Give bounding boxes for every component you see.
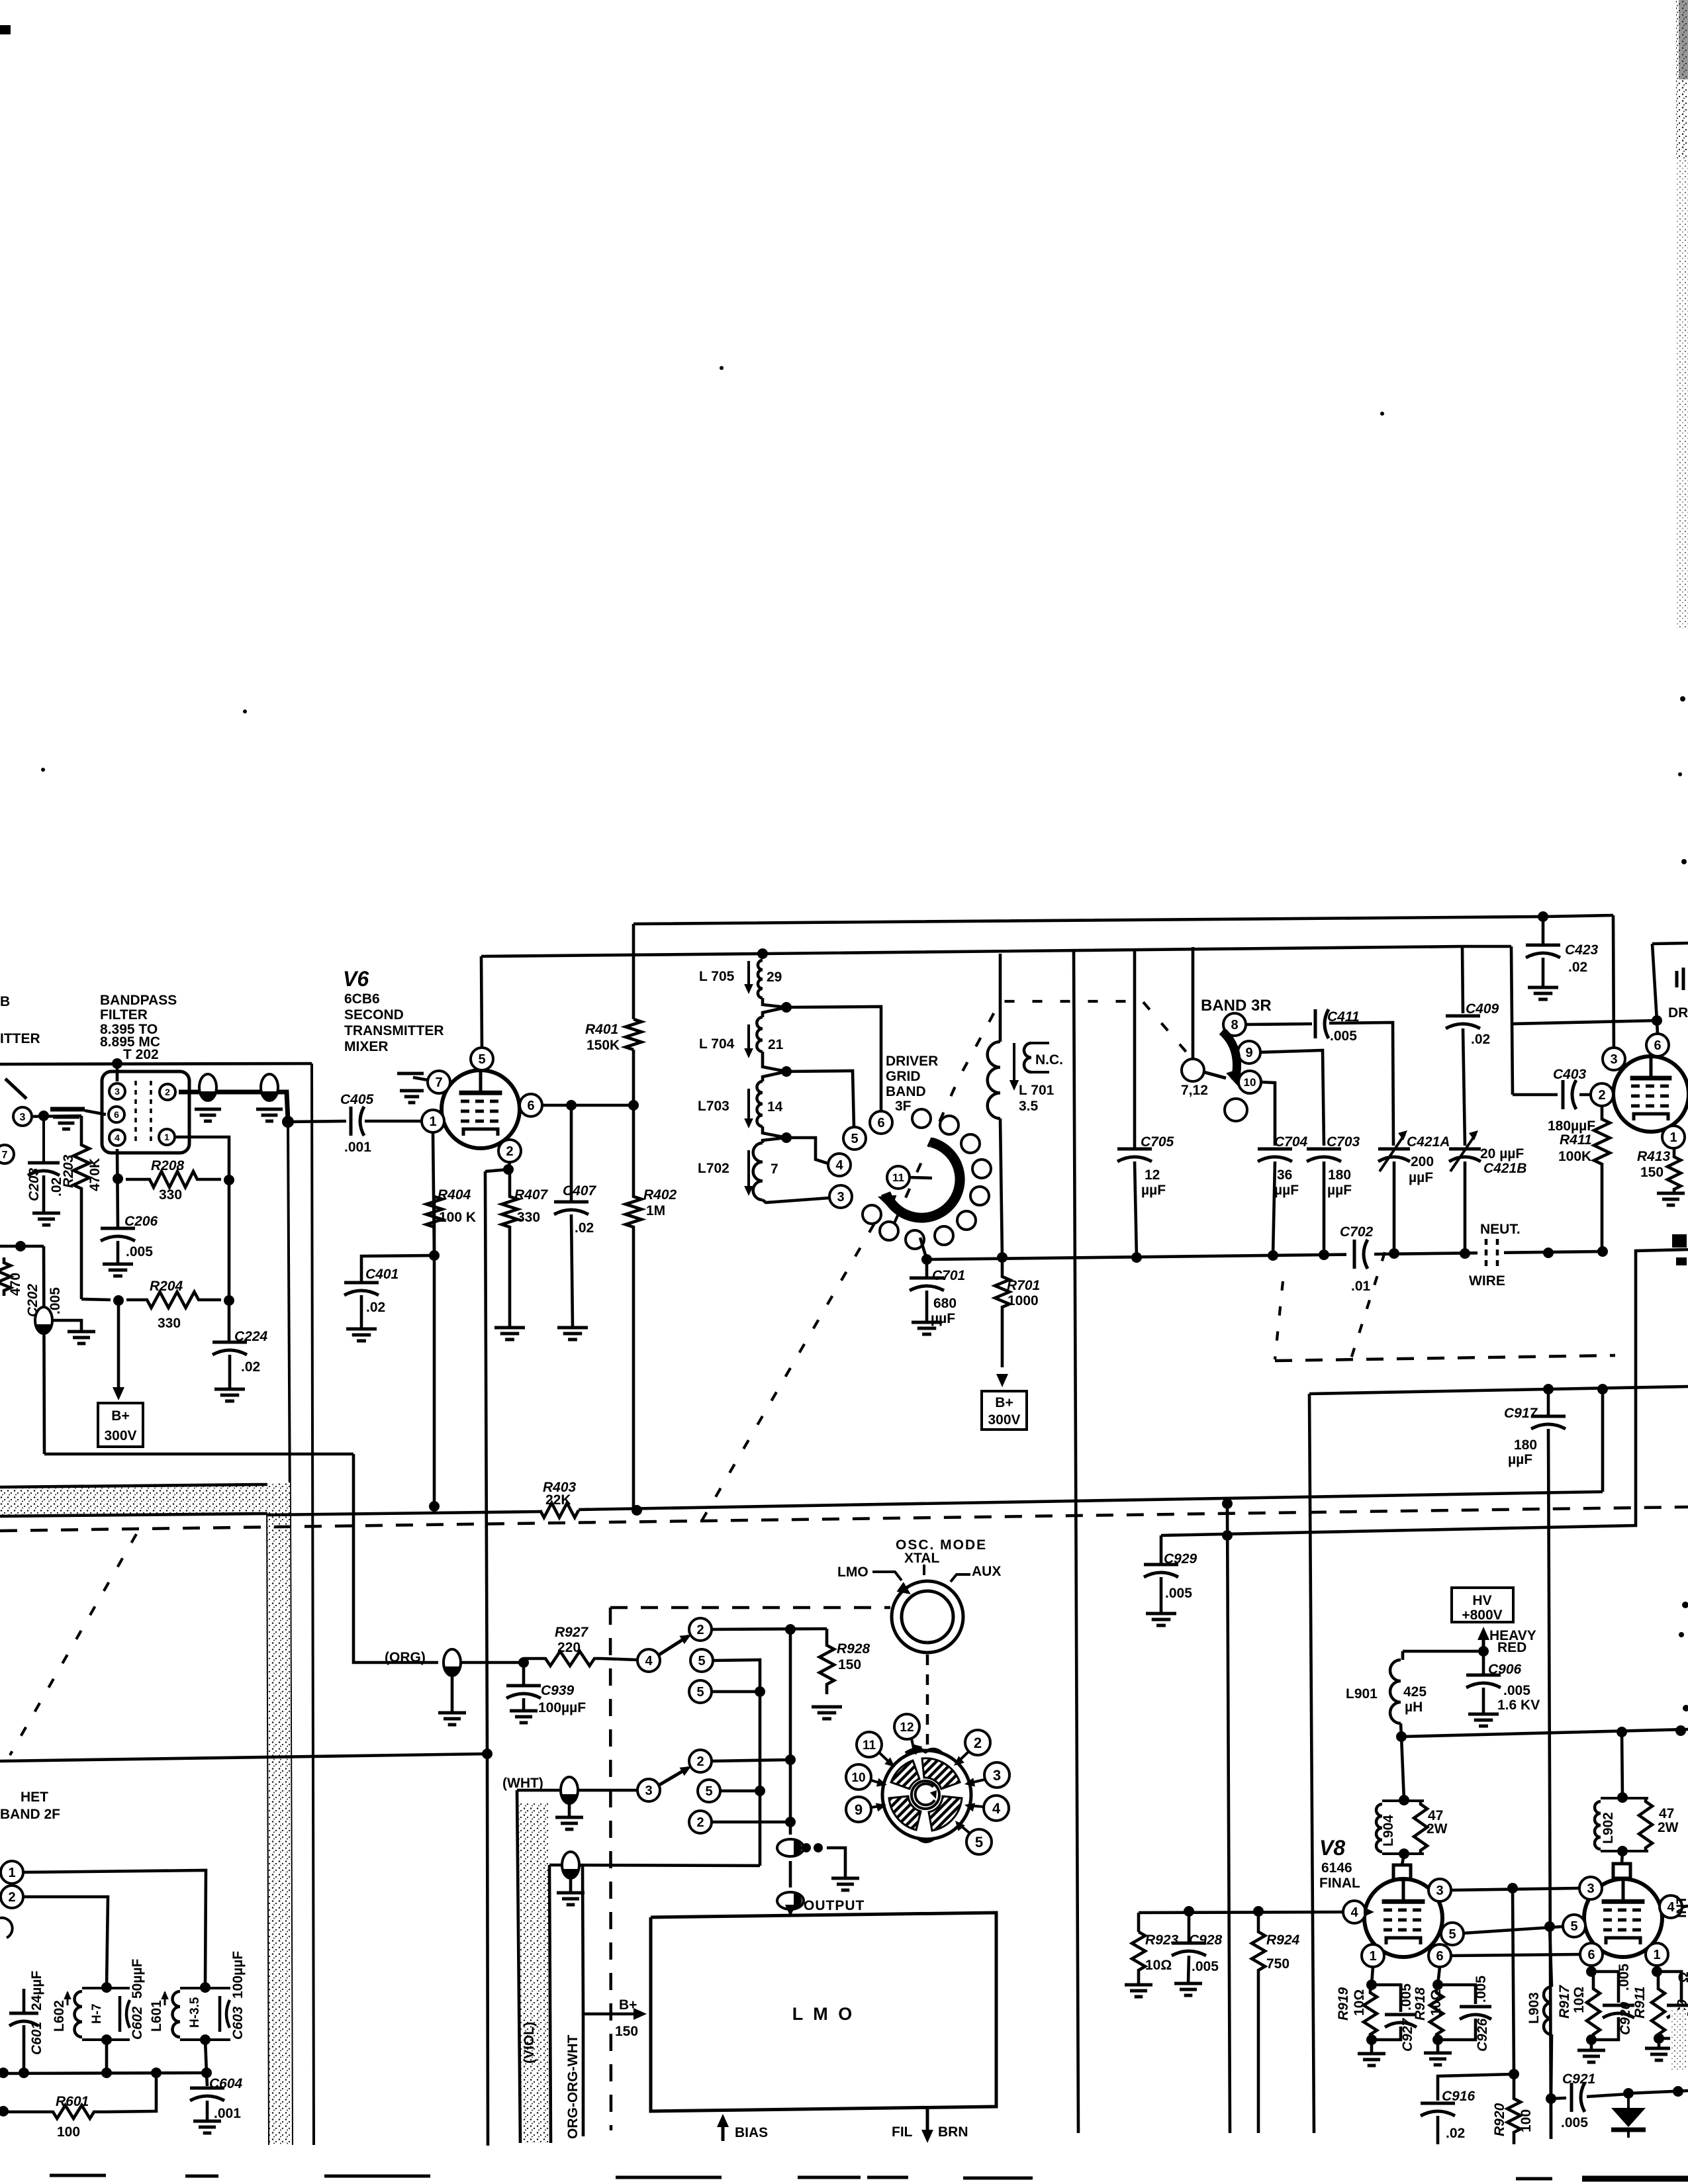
wire tap5 to pin 5 circle: [786, 1071, 854, 1127]
wire horizontal y2197: [44, 1453, 353, 1456]
node bus C917: [1543, 1248, 1554, 1258]
resistor R924 750: [1252, 1911, 1265, 2133]
node pin3 tap: [1507, 1883, 1518, 1893]
node L902 bottom: [1617, 1846, 1628, 1856]
label C926 rotated: [1474, 1976, 1490, 2052]
svg-text:3: 3: [1436, 1884, 1443, 1898]
svg-text:RED: RED: [1497, 1640, 1526, 1655]
node L902 riser: [1617, 1727, 1627, 1737]
node L904 bottom: [1399, 1848, 1409, 1859]
wire ORG line: [353, 1454, 438, 1662]
svg-text:6: 6: [877, 1116, 884, 1130]
wire R918 ground lead: [1436, 2040, 1440, 2053]
capacitor C421B 20uuF variable: [1449, 1130, 1481, 1171]
svg-text:2: 2: [696, 1754, 704, 1769]
pin 1 V7: [1662, 1126, 1685, 1148]
svg-text:10Ω: 10Ω: [1429, 1989, 1444, 2016]
wire bead to ground: [827, 1848, 845, 1878]
label H-7 rotated: [90, 2003, 104, 2024]
node bus L602: [101, 2068, 112, 2078]
svg-text:.02: .02: [575, 1220, 594, 1236]
pin 3 T202: [109, 1083, 125, 1099]
svg-text:B+: B+: [619, 1997, 637, 2013]
label BANDPASS FILTER: [100, 993, 177, 1062]
wire C916 stub: [1438, 2074, 1514, 2101]
wire R403 line left: [434, 1512, 540, 1513]
ground C203: [32, 1213, 60, 1225]
capacitor C917 180uuF: [1531, 1389, 1566, 1429]
power HV+800V box: [1452, 1588, 1513, 1623]
label C701: [931, 1268, 965, 1326]
pin 1 band2F: [1, 1861, 23, 1884]
svg-text:(VIOL): (VIOL): [522, 2022, 537, 2064]
node 2b junction: [785, 1754, 796, 1765]
label C411: [1327, 1009, 1360, 1044]
label OSC MODE: [896, 1537, 987, 1553]
svg-text:L602: L602: [52, 2000, 67, 2032]
switch Band 3R wiper: [1204, 1031, 1240, 1086]
svg-text:4: 4: [835, 1158, 843, 1173]
wire V6 plate riser: [481, 956, 482, 1048]
svg-text:DRI: DRI: [1668, 1005, 1688, 1021]
node bus L601: [201, 2068, 212, 2078]
stray speck 3: [243, 709, 247, 713]
wire ORG cable below: [582, 2014, 585, 2136]
wire R203 bottom to R204 row: [81, 1299, 111, 1300]
wire chassis dashed line: [0, 1507, 1688, 1531]
feedthrough C202: [35, 1307, 52, 1334]
svg-text:C421A: C421A: [1407, 1134, 1450, 1150]
wire C401 ground lead: [360, 1295, 363, 1329]
node C407 tap: [566, 1100, 577, 1111]
wire band border x404: [267, 1484, 269, 2145]
svg-text:300V: 300V: [988, 1412, 1020, 1428]
svg-text:FILTER: FILTER: [100, 1007, 148, 1023]
inductor L901 425uH: [1390, 1651, 1403, 1737]
label L904 rotated: [1381, 1815, 1396, 1846]
wire R401 to node: [632, 1050, 635, 1105]
node R917 bottom: [1586, 2034, 1597, 2045]
node junction on top-left bus: [112, 1058, 122, 1069]
capacitor C921 .005 series: [1571, 2083, 1585, 2112]
node output node: [785, 1624, 796, 1635]
node junction thick wire: [282, 1116, 294, 1128]
svg-text:7: 7: [435, 1075, 442, 1090]
svg-text:L904: L904: [1381, 1815, 1396, 1846]
ground R918: [1424, 2053, 1452, 2065]
svg-text:R208: R208: [151, 1158, 185, 1173]
svg-text:L 701: L 701: [1019, 1083, 1055, 1098]
wire xtal rail x1622: [1074, 950, 1078, 2133]
node C917 top: [1543, 1384, 1554, 1394]
power B+300V box: [98, 1403, 143, 1447]
svg-text:11: 11: [892, 1171, 904, 1184]
resistor 470 partial edge: [0, 1257, 11, 1296]
wire C409 drop: [1462, 946, 1463, 1013]
label R920 rotated: [1492, 2103, 1534, 2136]
label 470 rotated: [8, 1273, 23, 1296]
resistor R203 470K: [73, 1116, 89, 1299]
ground C906: [1468, 1714, 1499, 1726]
label C916: [1442, 2089, 1476, 2141]
ground C604: [193, 2121, 221, 2133]
resistor R401 150K: [626, 1019, 641, 1050]
pin 2a osc switch: [689, 1618, 712, 1641]
svg-text:2: 2: [696, 1815, 704, 1830]
wire tap5 down to L703: [763, 1071, 786, 1081]
wire C921 to diode: [1587, 2094, 1628, 2097]
svg-text:C921: C921: [1562, 2071, 1595, 2087]
wire right edge coil marks: [1677, 968, 1683, 990]
svg-text:LMO: LMO: [837, 1565, 868, 1580]
svg-text:L702: L702: [698, 1161, 729, 1176]
capacitor C423 .02: [1526, 911, 1560, 987]
switch Band 3F wiper arc: [878, 1142, 960, 1218]
svg-text:330: 330: [517, 1210, 540, 1225]
feedthrough output 2: [777, 1892, 804, 1909]
label C421B: [1480, 1146, 1526, 1176]
label R204: [150, 1279, 183, 1331]
ground output bead: [831, 1878, 859, 1890]
svg-text:9: 9: [855, 1801, 863, 1818]
dashed selector box left: [610, 1608, 611, 2130]
pin 4 osc switch: [637, 1649, 660, 1672]
feedthrough WHT: [561, 1777, 578, 1803]
inductor L704 21: [757, 1017, 763, 1052]
label R919 rotated: [1336, 1987, 1367, 2021]
inductor L903: [1544, 1927, 1552, 2099]
pin 9 socket: [846, 1797, 886, 1822]
arrow L703: [744, 1089, 753, 1128]
ground C202: [68, 1332, 95, 1343]
wire T202 pin3 riser: [116, 1064, 119, 1081]
node L705 top: [757, 948, 768, 959]
ground R923: [1125, 1985, 1152, 1997]
wire V6 pin7 ground stub: [397, 1073, 428, 1080]
svg-text:C928: C928: [1189, 1933, 1223, 1948]
cap V9 plate connector: [1613, 1864, 1630, 1878]
capacitor C922 partial loop: [1657, 1972, 1688, 2038]
svg-text:GRID: GRID: [886, 1069, 921, 1084]
node R403 left end: [429, 1501, 440, 1512]
svg-text:µµF: µµF: [1409, 1170, 1433, 1185]
svg-text:8: 8: [1231, 1018, 1238, 1032]
pin 5c osc switch: [698, 1780, 720, 1802]
node out bead b: [814, 1843, 823, 1852]
node bus C705: [1131, 1252, 1142, 1263]
wire y2099 right: [1548, 1387, 1688, 1389]
svg-text:C401: C401: [365, 1267, 399, 1282]
pin 5 V8: [1441, 1923, 1464, 1945]
resistor R204 330: [126, 1292, 221, 1308]
svg-text:WIRE: WIRE: [1469, 1273, 1505, 1289]
wire x1148 lower: [759, 1791, 762, 1866]
label C920 rotated: [1617, 1964, 1633, 2035]
svg-text:3: 3: [837, 1190, 844, 1205]
pin 5b osc switch: [689, 1680, 712, 1703]
svg-text:10Ω: 10Ω: [1145, 1958, 1172, 1973]
node tap 6: [781, 1002, 792, 1013]
wire T202 pin6 shield bar: [50, 1109, 106, 1115]
svg-text:L 705: L 705: [699, 969, 735, 984]
svg-text:C702: C702: [1340, 1224, 1374, 1240]
stipple band vertical: [267, 1482, 292, 2145]
svg-text:300V: 300V: [104, 1428, 136, 1443]
node 5b junction: [755, 1686, 765, 1697]
node out bead a: [802, 1843, 811, 1852]
node B plus junction: [113, 1295, 124, 1306]
wire R911 ground lead: [1658, 2038, 1661, 2048]
capacitor C704 36uuF: [1258, 1149, 1292, 1255]
node V7 pin6 tee: [1652, 1015, 1662, 1026]
svg-text:5: 5: [975, 1834, 983, 1850]
svg-text:C704: C704: [1274, 1134, 1308, 1150]
svg-text:.005: .005: [1165, 1586, 1192, 1601]
svg-text:150: 150: [1640, 1165, 1664, 1180]
label BRN: [938, 2124, 968, 2140]
svg-text:C203: C203: [26, 1167, 42, 1201]
svg-text:SECOND: SECOND: [344, 1007, 404, 1023]
label C922 rotated: [1675, 1972, 1688, 2017]
resistor R411 100K: [1594, 1106, 1610, 1251]
wire WHT2 line: [549, 1865, 760, 1866]
wire R403 line right: [579, 1492, 1603, 1510]
svg-text:150K: 150K: [586, 1038, 620, 1053]
wire WHT to pin3: [578, 1789, 637, 1792]
node x2421 y2099: [1597, 1384, 1608, 1394]
wire L705 to tap6: [763, 998, 786, 1007]
svg-text:L 704: L 704: [699, 1036, 735, 1052]
svg-text:R601: R601: [56, 2094, 89, 2109]
svg-text:Ω: Ω: [1676, 1972, 1688, 1983]
pin 10 band3R: [1239, 1071, 1261, 1093]
svg-text:14: 14: [767, 1099, 783, 1115]
svg-text:B+: B+: [995, 1395, 1013, 1410]
ground C224: [214, 1389, 245, 1401]
svg-text:BAND 2F: BAND 2F: [0, 1807, 60, 1822]
label R407: [514, 1187, 549, 1225]
capacitor C409 .02: [1446, 1016, 1480, 1028]
resistor R413 150: [1667, 1148, 1681, 1193]
node L602 top: [101, 1982, 112, 1993]
dashed mech link lower left: [10, 1534, 136, 1755]
svg-text:INT: INT: [1674, 1895, 1688, 1918]
pin 5 V9: [1563, 1915, 1585, 1937]
svg-text:R402: R402: [643, 1187, 677, 1203]
label C409: [1466, 1001, 1499, 1047]
capacitor C906 .005 1.6KV: [1466, 1651, 1501, 1714]
wire C405 to V6 pin1: [365, 1120, 422, 1123]
label 7,12: [1181, 1083, 1208, 1098]
svg-text:2: 2: [1598, 1088, 1605, 1103]
dashed selector box top: [610, 1606, 890, 1610]
svg-text:.02: .02: [1446, 2126, 1465, 2141]
wire C206 to ground: [117, 1241, 120, 1264]
wire plate line to pin6: [1513, 1021, 1657, 1024]
wire V8 pin6 drop: [1438, 1967, 1440, 1985]
wire C411 to corner: [1329, 1023, 1393, 1146]
stipple band VIOL: [519, 1803, 549, 2143]
svg-text:3: 3: [993, 1767, 1001, 1784]
wire C409 to C421B: [1463, 1028, 1465, 1146]
node C701 junction: [921, 1254, 932, 1265]
svg-text:.005: .005: [1330, 1028, 1357, 1044]
svg-text:L901: L901: [1346, 1686, 1378, 1702]
capacitor C929 .005: [1144, 1535, 1178, 1614]
svg-text:100µµF: 100µµF: [538, 1700, 586, 1715]
ground C939: [510, 1711, 538, 1723]
label R701: [1007, 1278, 1040, 1308]
wire left rail x66: [44, 1246, 44, 1454]
socket hatched sector 3: [889, 1796, 921, 1830]
label R411: [1558, 1132, 1592, 1164]
capacitor C920 .005 loop: [1591, 1972, 1634, 2040]
wire L702 to pin 3 circle: [763, 1198, 829, 1203]
svg-text:H-3.5: H-3.5: [188, 1997, 202, 2028]
svg-text:HET: HET: [21, 1790, 48, 1805]
pin 5 socket: [955, 1821, 992, 1854]
svg-text:ITTER: ITTER: [0, 1031, 40, 1046]
page right edge stipple strip: [1675, 0, 1688, 629]
wire C224 to ground: [228, 1355, 232, 1389]
stray speck 4: [41, 768, 45, 772]
feedthrough ORG: [444, 1649, 461, 1676]
wire V9 pin6 drop: [1590, 1966, 1593, 1972]
svg-text:2: 2: [165, 1087, 170, 1097]
label C202 rotated: [25, 1283, 63, 1317]
label C203 rotated: [26, 1167, 64, 1201]
node x1854 tee: [1222, 1498, 1233, 1509]
stray speck 1: [720, 366, 724, 370]
pin 11 bandswitch: [887, 1166, 910, 1189]
svg-text:L601: L601: [149, 2000, 164, 2032]
svg-text:150: 150: [838, 1657, 861, 1672]
svg-text:3: 3: [20, 1112, 26, 1123]
label V6 title: [343, 967, 369, 991]
node L901 bottom: [1396, 1731, 1407, 1742]
pin 4 bandswitch: [828, 1154, 851, 1176]
wire x1854 rail: [1227, 1504, 1230, 2133]
label C705: [1141, 1134, 1174, 1198]
svg-text:12: 12: [1145, 1167, 1160, 1183]
wire tap6 to pin 6 circle: [786, 1007, 881, 1111]
node bus left: [0, 2068, 9, 2078]
resistor R401 150K rail top: [632, 924, 635, 1019]
box LMO: [651, 1913, 996, 2111]
wire V6 pin1 cathode drop: [433, 1132, 434, 1255]
svg-text:1: 1: [164, 1132, 169, 1142]
svg-text:2: 2: [506, 1144, 513, 1159]
label C704: [1274, 1134, 1308, 1198]
label C401: [365, 1267, 399, 1315]
svg-text:L902: L902: [1601, 1812, 1616, 1844]
resistor R919 10ohm: [1364, 1985, 1377, 2040]
svg-text:10Ω: 10Ω: [1571, 1987, 1587, 2013]
diode CR902: [1611, 2093, 1646, 2138]
label R404: [438, 1187, 476, 1225]
label INT rotated: [1674, 1895, 1688, 1918]
svg-text:7: 7: [771, 1161, 778, 1177]
node R918 bottom: [1432, 2034, 1443, 2045]
wire jog to long rail: [485, 1169, 508, 1171]
transformer T202 box: [102, 1071, 189, 1153]
label OUTPUT: [804, 1898, 865, 1913]
resistor R918 10ohm: [1430, 1985, 1443, 2040]
pin 1 V8: [1362, 1944, 1384, 1967]
svg-text:C206: C206: [124, 1214, 158, 1229]
label H-3.5 rotated: [188, 1997, 202, 2028]
svg-text:100µµF: 100µµF: [230, 1951, 246, 1999]
pin 6 bandswitch: [870, 1111, 892, 1134]
svg-text:R204: R204: [150, 1279, 183, 1294]
node HV junction: [1478, 1646, 1489, 1657]
feedthrough WHT2: [562, 1852, 579, 1878]
svg-text:1M: 1M: [646, 1203, 665, 1218]
wire V8 pin6 line: [1451, 1954, 1580, 1956]
wire ORG to R927: [461, 1661, 524, 1664]
node L903 bottom: [1546, 2093, 1556, 2104]
svg-text:22K: 22K: [545, 1492, 571, 1508]
label C224: [234, 1329, 268, 1375]
node C916 R920 node: [1509, 2069, 1519, 2079]
wire rect left x1978: [1309, 1394, 1314, 2133]
svg-text:R928: R928: [837, 1641, 870, 1657]
pin 3 osc switch: [637, 1779, 660, 1801]
wire arrow to B+300V: [117, 1300, 120, 1391]
wire band3R rotor rail: [1192, 947, 1195, 1060]
page bottom border dashes: [50, 2175, 1552, 2179]
ground C701: [912, 1322, 942, 1334]
label V6 type: [344, 991, 444, 1054]
power B+300V box 2: [982, 1391, 1027, 1430]
inductor L702 7: [753, 1143, 763, 1200]
pin 1 T202: [159, 1129, 175, 1145]
wire C421B to bus: [1464, 1161, 1467, 1253]
label DRIVER GRID BAND 3F: [886, 1054, 938, 1114]
node R919 bottom: [1366, 2034, 1377, 2045]
pin 2 V7: [1591, 1083, 1613, 1106]
tube V6: [442, 1070, 520, 1148]
node R924 top: [1253, 1906, 1264, 1917]
ground C929: [1146, 1614, 1176, 1625]
capacitor C927 .005 loop: [1372, 1985, 1417, 2040]
ground feedthrough 2: [256, 1109, 283, 1121]
pin blank band3R: [1225, 1099, 1247, 1121]
svg-text:.02: .02: [366, 1300, 385, 1315]
node C401 tee: [429, 1250, 440, 1261]
wire L904 riser: [1401, 1737, 1404, 1800]
capacitor C407 .02: [554, 1105, 588, 1328]
label L705: [699, 969, 782, 985]
pin 7 partial left edge: [0, 1145, 14, 1163]
svg-text:AUX: AUX: [972, 1564, 1001, 1579]
ground R413: [1657, 1193, 1685, 1205]
svg-text:21: 21: [768, 1037, 784, 1052]
svg-text:C601: C601: [29, 2022, 44, 2055]
ground C423: [1528, 987, 1558, 999]
label C906: [1488, 1662, 1540, 1713]
svg-text:29: 29: [767, 970, 782, 985]
arrowhead B+150: [633, 2008, 647, 2020]
label L703: [698, 1099, 783, 1115]
node L601 top: [200, 1982, 211, 1993]
resistor R601 100: [45, 2105, 106, 2118]
pin 6 V9: [1580, 1943, 1603, 1966]
wire plate bus y2620: [1401, 1729, 1688, 1737]
wire stub left 1883: [0, 1245, 44, 1248]
svg-text:330: 330: [158, 1316, 181, 1331]
arrowhead R701 to B+: [996, 1374, 1008, 1387]
